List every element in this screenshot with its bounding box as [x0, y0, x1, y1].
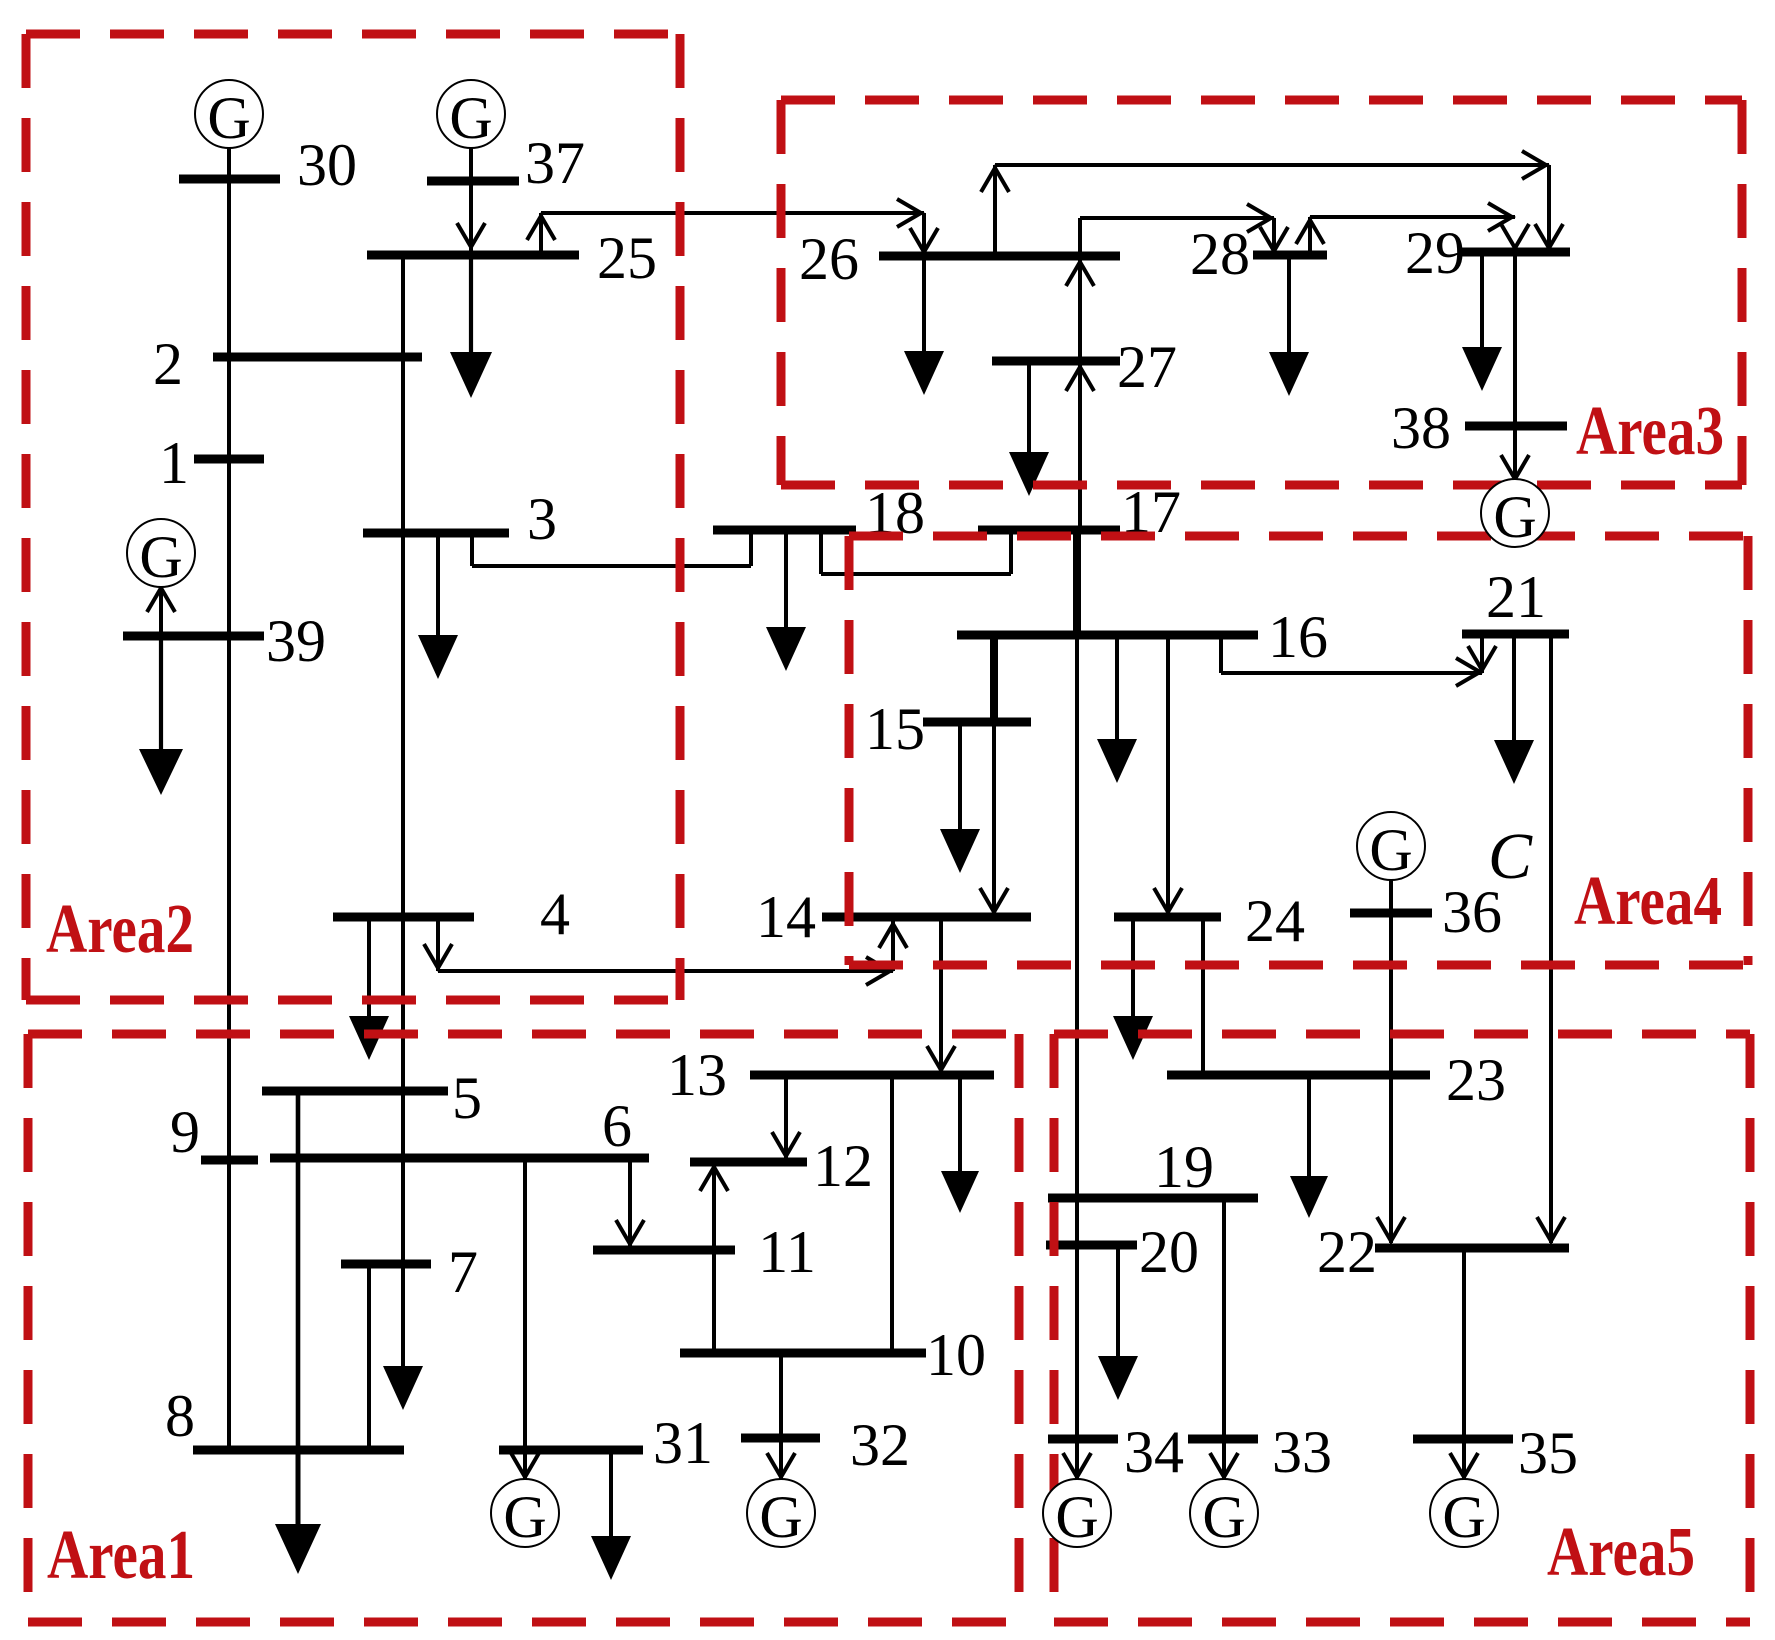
svg-text:1: 1	[159, 430, 189, 496]
svg-text:16: 16	[1268, 604, 1328, 670]
svg-text:14: 14	[756, 884, 816, 950]
svg-text:38: 38	[1391, 395, 1451, 461]
svg-text:31: 31	[653, 1410, 713, 1476]
svg-text:G: G	[1369, 817, 1412, 883]
svg-text:9: 9	[170, 1099, 200, 1165]
svg-text:G: G	[207, 85, 250, 151]
svg-text:26: 26	[799, 226, 859, 292]
svg-text:30: 30	[297, 132, 357, 198]
svg-text:G: G	[1202, 1484, 1245, 1550]
svg-text:Area2: Area2	[46, 891, 194, 968]
svg-text:33: 33	[1272, 1419, 1332, 1485]
svg-text:28: 28	[1190, 221, 1250, 287]
svg-text:20: 20	[1139, 1219, 1199, 1285]
svg-text:21: 21	[1486, 564, 1546, 630]
svg-text:8: 8	[165, 1383, 195, 1449]
svg-text:37: 37	[525, 130, 585, 196]
svg-text:3: 3	[527, 486, 557, 552]
svg-text:2: 2	[153, 331, 183, 397]
svg-text:19: 19	[1154, 1134, 1214, 1200]
svg-text:G: G	[449, 85, 492, 151]
svg-text:4: 4	[540, 881, 570, 947]
svg-text:25: 25	[597, 225, 657, 291]
svg-text:Area5: Area5	[1547, 1514, 1695, 1591]
svg-text:G: G	[759, 1484, 802, 1550]
svg-text:23: 23	[1446, 1047, 1506, 1113]
svg-text:10: 10	[926, 1322, 986, 1388]
svg-text:G: G	[503, 1484, 546, 1550]
svg-text:34: 34	[1124, 1419, 1184, 1485]
svg-text:Area4: Area4	[1574, 863, 1722, 940]
svg-text:22: 22	[1317, 1219, 1377, 1285]
svg-text:27: 27	[1117, 334, 1177, 400]
svg-text:13: 13	[667, 1042, 727, 1108]
svg-text:24: 24	[1245, 888, 1305, 954]
svg-text:G: G	[1055, 1484, 1098, 1550]
svg-text:G: G	[1493, 484, 1536, 550]
svg-text:7: 7	[448, 1239, 478, 1305]
svg-text:12: 12	[813, 1133, 873, 1199]
svg-text:39: 39	[266, 608, 326, 674]
svg-text:29: 29	[1405, 220, 1465, 286]
svg-text:11: 11	[758, 1219, 816, 1285]
svg-text:5: 5	[452, 1065, 482, 1131]
svg-text:G: G	[1442, 1484, 1485, 1550]
svg-text:32: 32	[850, 1412, 910, 1478]
svg-text:15: 15	[865, 696, 925, 762]
svg-text:Area3: Area3	[1576, 393, 1724, 470]
svg-text:6: 6	[602, 1093, 632, 1159]
svg-text:C: C	[1488, 820, 1533, 893]
svg-text:G: G	[139, 524, 182, 590]
svg-text:Area1: Area1	[47, 1517, 195, 1594]
svg-text:35: 35	[1518, 1420, 1578, 1486]
